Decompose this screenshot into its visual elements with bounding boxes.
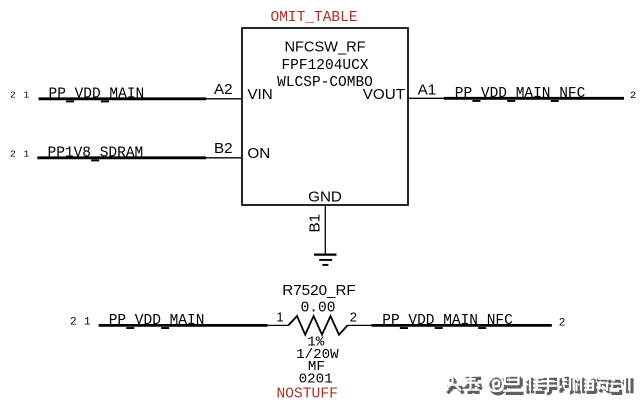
svg-text:PP1V8_SDRAM: PP1V8_SDRAM xyxy=(48,146,144,162)
wire net PP_VDD_MAIN_NFC (thick) xyxy=(444,97,624,100)
svg-text:0201: 0201 xyxy=(299,371,333,387)
svg-text:OMIT_TABLE: OMIT_TABLE xyxy=(271,10,358,26)
wire pin stub VIN (thin) xyxy=(206,98,242,100)
svg-text:1: 1 xyxy=(24,148,30,159)
svg-text:WLCSP-COMBO: WLCSP-COMBO xyxy=(277,75,373,91)
svg-text:VOUT: VOUT xyxy=(363,86,405,103)
svg-text:2: 2 xyxy=(350,310,357,325)
wire net PP_VDD_MAIN (thick) xyxy=(39,97,207,100)
svg-text:GND: GND xyxy=(308,189,342,206)
op-amp U1 body (load switch box NFCSW_RF) xyxy=(242,28,408,205)
svg-text:A2: A2 xyxy=(214,81,233,98)
wire pin stub ON (thin) xyxy=(206,157,242,159)
svg-text:2: 2 xyxy=(559,318,566,330)
svg-text:B2: B2 xyxy=(214,140,233,157)
svg-text:1: 1 xyxy=(276,310,283,325)
wire net PP1V8_SDRAM (thick) xyxy=(37,156,206,159)
svg-text:2: 2 xyxy=(10,148,16,159)
svg-text:PP_VDD_MAIN_NFC: PP_VDD_MAIN_NFC xyxy=(382,313,513,329)
wire GND stub (vertical) xyxy=(324,205,326,254)
svg-text:B1: B1 xyxy=(307,214,324,233)
svg-text:NOSTUFF: NOSTUFF xyxy=(277,386,338,402)
svg-text:PP_VDD_MAIN: PP_VDD_MAIN xyxy=(49,87,145,103)
svg-text:PP_VDD_MAIN_NFC: PP_VDD_MAIN_NFC xyxy=(455,86,586,102)
svg-text:PP_VDD_MAIN: PP_VDD_MAIN xyxy=(109,313,205,329)
wire net PP_VDD_MAIN_NFC bottom (thick) xyxy=(372,324,552,327)
wire net PP_VDD_MAIN bottom (thick) xyxy=(99,324,268,327)
svg-text:NFCSW_RF: NFCSW_RF xyxy=(284,40,365,56)
resistor R7520_RF zigzag xyxy=(288,316,347,335)
svg-text:2: 2 xyxy=(630,90,636,102)
svg-text:2: 2 xyxy=(70,317,77,329)
svg-text:A1: A1 xyxy=(418,82,437,99)
net label underscore dashes below wires xyxy=(66,100,559,329)
svg-text:2: 2 xyxy=(10,89,16,100)
wire resistor right stub (thin) xyxy=(348,324,372,326)
svg-text:1: 1 xyxy=(84,317,91,329)
svg-text:ON: ON xyxy=(247,145,270,162)
svg-text:R7520_RF: R7520_RF xyxy=(282,282,355,299)
ground symbol xyxy=(314,255,337,265)
svg-text:FPF1204UCX: FPF1204UCX xyxy=(281,58,368,74)
svg-text:0.00: 0.00 xyxy=(301,301,336,317)
wire resistor left stub (thin) xyxy=(268,324,289,326)
svg-text:1: 1 xyxy=(24,89,30,100)
wire pin stub VOUT (thin) xyxy=(408,97,444,99)
svg-text:VIN: VIN xyxy=(247,86,272,103)
